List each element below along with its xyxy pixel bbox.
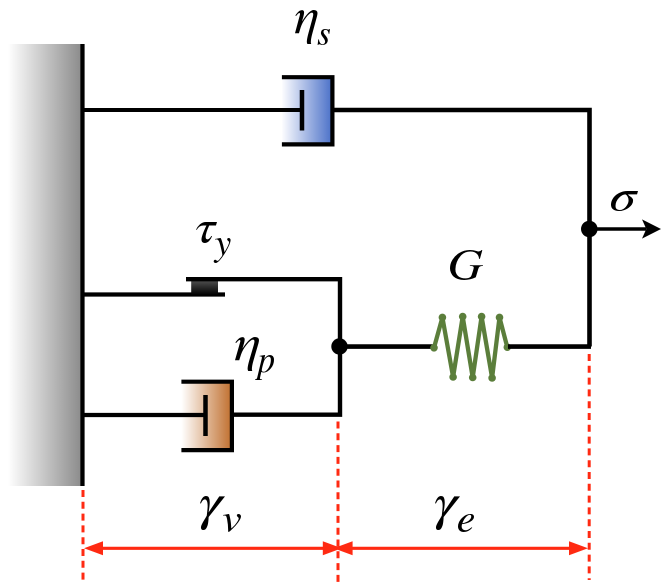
wire: wall to friction slider (lower plate)	[82, 292, 225, 296]
wall	[8, 44, 80, 486]
label tau_y	[196, 222, 231, 263]
friction slider block tau_y	[191, 280, 218, 295]
label sigma	[611, 191, 638, 211]
label eta_s	[295, 10, 330, 45]
label gamma_v	[200, 496, 241, 532]
wire: wall to dashpot eta_p piston rod	[82, 413, 206, 417]
arrow sigma	[589, 227, 646, 231]
dashpot eta_s cup	[282, 77, 333, 144]
dashpot eta_p piston	[203, 395, 208, 436]
label G	[450, 250, 483, 280]
node sigma	[581, 221, 598, 238]
label gamma_e	[435, 496, 474, 532]
label eta_p	[235, 337, 274, 380]
red dashed line middle	[337, 422, 340, 583]
wire: dashpot eta_s to right rail and down	[332, 110, 589, 347]
wire: spring to right rail	[508, 344, 591, 349]
wire: wall to dashpot eta_s piston rod	[82, 108, 302, 112]
red dashed line right	[588, 354, 591, 580]
wire: node to spring	[340, 344, 436, 349]
dashpot eta_s piston	[300, 90, 305, 131]
arrow gamma_v (double-headed)	[100, 547, 324, 550]
spring G	[430, 313, 511, 382]
arrow gamma_e (double-headed)	[351, 547, 570, 550]
dashpot eta_p cup	[181, 382, 232, 450]
red dashed line left	[82, 490, 85, 580]
node junction	[331, 338, 347, 354]
wire: slider upper plate to node and down to eta_p	[186, 279, 340, 415]
wall edge line	[80, 44, 84, 486]
